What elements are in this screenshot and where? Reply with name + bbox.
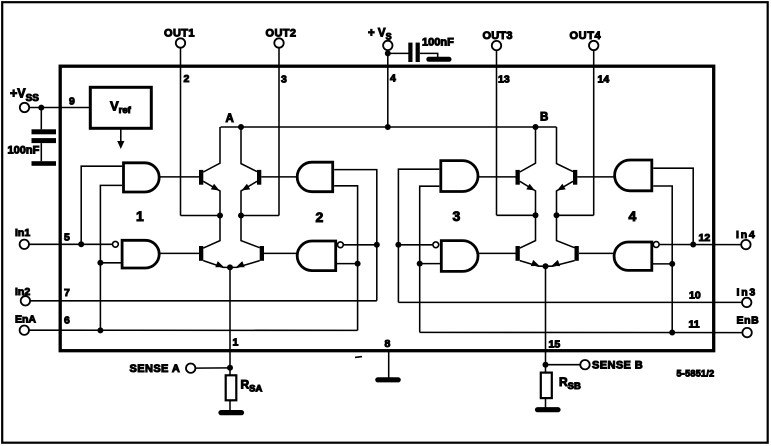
svg-text:1: 1 xyxy=(136,208,144,224)
svg-text:EnA: EnA xyxy=(15,314,36,326)
svg-text:6: 6 xyxy=(64,315,70,327)
svg-text:100nF: 100nF xyxy=(422,36,454,48)
svg-text:9: 9 xyxy=(69,96,75,108)
svg-text:OUT3: OUT3 xyxy=(483,30,513,42)
svg-text:5: 5 xyxy=(64,232,70,244)
svg-text:10: 10 xyxy=(689,290,701,302)
svg-text:7: 7 xyxy=(64,287,70,299)
svg-text:3: 3 xyxy=(281,74,287,86)
svg-text:In3: In3 xyxy=(737,287,758,299)
svg-text:2: 2 xyxy=(184,73,190,85)
svg-text:13: 13 xyxy=(498,74,510,86)
svg-text:B: B xyxy=(540,112,548,124)
svg-text:15: 15 xyxy=(549,339,561,351)
svg-text:3: 3 xyxy=(453,208,461,224)
svg-text:OUT1: OUT1 xyxy=(164,28,195,40)
svg-text:SENSE A: SENSE A xyxy=(130,363,181,375)
svg-text:OUT4: OUT4 xyxy=(570,30,602,42)
svg-text:5-5851/2: 5-5851/2 xyxy=(677,369,715,379)
svg-text:In4: In4 xyxy=(736,229,757,241)
svg-text:8: 8 xyxy=(385,338,391,350)
svg-text:OUT2: OUT2 xyxy=(266,28,297,40)
svg-text:100nF: 100nF xyxy=(8,145,40,157)
svg-text:11: 11 xyxy=(689,319,700,331)
svg-text:12: 12 xyxy=(699,232,711,244)
svg-text:A: A xyxy=(226,113,234,125)
svg-text:14: 14 xyxy=(598,74,610,86)
svg-text:1: 1 xyxy=(233,337,239,349)
svg-text:SENSE B: SENSE B xyxy=(592,360,643,372)
svg-text:In2: In2 xyxy=(15,286,30,298)
svg-text:4: 4 xyxy=(390,73,396,85)
svg-text:EnB: EnB xyxy=(737,315,760,327)
svg-text:2: 2 xyxy=(316,209,324,225)
svg-text:4: 4 xyxy=(629,208,637,224)
svg-text:In1: In1 xyxy=(15,227,30,239)
